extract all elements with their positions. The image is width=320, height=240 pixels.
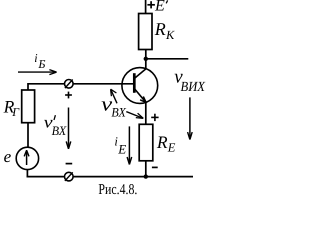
vBX input voltage label (101, 93, 127, 119)
transistor collector lead (135, 69, 146, 78)
plus sign at input terminal (65, 92, 72, 99)
vBX prime input voltage label (44, 112, 67, 138)
resistor RG (22, 90, 35, 123)
RG value label (3, 97, 21, 120)
wire base to RG stub (27, 83, 29, 90)
iB current arrow (18, 70, 57, 75)
source e internal arrow (24, 150, 29, 165)
wire RK to collector junction (145, 50, 147, 69)
resistor RK (139, 14, 152, 50)
minus sign at bottom terminal (66, 163, 73, 165)
source e circle (16, 147, 38, 169)
wire collector junction to right (146, 58, 189, 60)
RK value label (154, 19, 175, 42)
svg-text:R: R (156, 132, 168, 152)
wire emitter down (145, 102, 147, 125)
bottom rail wire (27, 176, 193, 178)
input terminal top (65, 80, 74, 89)
resistor RE (139, 124, 153, 161)
transistor base bar (133, 73, 136, 93)
svg-text:Е: Е (117, 141, 126, 156)
svg-text:Рис.4.8.: Рис.4.8. (98, 182, 137, 198)
svg-text:R: R (154, 19, 166, 39)
svg-text:Б: Б (37, 57, 45, 71)
transistor VT1 body (122, 68, 158, 104)
transistor emitter lead with arrow (135, 89, 147, 103)
iB current label (34, 51, 45, 71)
wire RG to source e (27, 123, 29, 148)
input terminal bottom (65, 172, 74, 181)
wire RE to bottom rail (145, 161, 147, 177)
svg-text:e: e (4, 147, 12, 166)
wire base (28, 83, 134, 85)
plus sign at RE top (151, 114, 158, 121)
node collector junction (144, 57, 148, 61)
svg-text:К: К (165, 28, 175, 42)
iE current label (114, 134, 126, 156)
vBX arrow to emitter (126, 112, 143, 119)
vVYX output voltage label (174, 67, 205, 95)
iE current arrow (127, 126, 132, 164)
RE value label (156, 132, 176, 155)
svg-text:E: E (154, 0, 165, 14)
svg-text:Г: Г (11, 105, 20, 119)
svg-text:ВХ: ВХ (111, 105, 126, 120)
vVYX output voltage arrow (188, 97, 193, 139)
svg-text:ВХ: ВХ (52, 123, 68, 138)
vBX prime voltage arrow (66, 108, 71, 149)
vBX arrow to base (111, 89, 117, 103)
wire supply to RK (145, 0, 147, 14)
svg-text:ВИХ: ВИХ (181, 80, 206, 95)
svg-text:Е: Е (167, 141, 176, 155)
wire source e to bottom rail (26, 170, 28, 178)
minus sign at RE bottom (152, 166, 158, 168)
svg-text:i: i (34, 51, 37, 65)
node emitter bottom junction (144, 174, 148, 178)
supply node +E label (147, 0, 167, 14)
